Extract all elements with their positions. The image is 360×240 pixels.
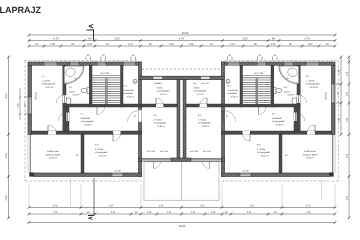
room label bathroom right [284,86,295,97]
svg-text:10,24 m²: 10,24 m² [45,86,54,89]
svg-text:3. Szoba: 3. Szoba [154,118,163,121]
svg-text:.90: .90 [105,43,109,46]
svg-text:2.04: 2.04 [167,211,172,214]
door hall to bedroom2 (right) [242,131,250,141]
svg-text:1.50: 1.50 [308,43,313,46]
svg-text:um 90: um 90 [114,170,121,173]
room label bedroom2 left [95,144,109,158]
svg-text:4.25: 4.25 [271,43,276,46]
svg-text:4,30 m²: 4,30 m² [73,94,80,97]
svg-text:szönyegpadló: szönyegpadló [257,151,271,154]
svg-text:3.04: 3.04 [111,211,116,214]
svg-text:.90: .90 [253,43,257,46]
svg-text:Gépkocsi beálló: Gépkocsi beálló [303,153,319,156]
svg-text:4.47: 4.47 [250,205,255,208]
window hall top (right) [228,62,240,65]
svg-text:Szoba: Szoba [157,86,164,89]
bottom wall center left corner [139,158,142,162]
carport side dim text left [76,154,289,157]
room label upper center left [157,82,171,96]
top wall left wing [28,62,141,65]
window dim marks outside right wall [336,84,340,103]
party wall right leaf [183,80,186,159]
svg-text:szönyegpadló: szönyegpadló [306,83,320,86]
carport corner post left [29,172,33,176]
recess right jamb wall [222,62,225,76]
svg-text:um 7.96: um 7.96 [100,72,109,75]
terrace outline below center [144,162,219,200]
wall stair/hall (right unit) [240,65,243,107]
right exterior wall [332,65,336,134]
room label bedroom1 right [306,75,320,89]
svg-text:szönyegpadló: szönyegpadló [157,90,171,93]
interior wall y104 (left unit) [63,104,141,107]
svg-text:4.79: 4.79 [304,38,310,41]
svg-text:14,61 m²: 14,61 m² [99,154,108,157]
svg-text:Közlekedö: Közlekedö [272,117,283,120]
toilet right unit [274,88,282,94]
carport corner post right [330,172,334,176]
interior wall y104 (right unit) [223,104,301,107]
room label bathroom left [69,86,80,97]
svg-text:szönyegpadló: szönyegpadló [81,120,95,123]
svg-text:.90: .90 [35,43,39,46]
svg-text:3,04 m²: 3,04 m² [231,95,238,98]
svg-text:4,30 m²: 4,30 m² [288,94,295,97]
dashed overhang line across recess [142,68,222,70]
svg-text:szönyegpadló: szönyegpadló [272,120,286,123]
svg-text:Szoba: Szoba [194,86,201,89]
svg-text:Vendszoba: Vendszoba [124,89,135,92]
svg-text:ALAPRAJZ: ALAPRAJZ [0,5,42,15]
svg-text:2. Szoba: 2. Szoba [95,148,104,151]
wall bathroom/stair (right unit) [271,65,274,107]
door center room upper (left) [156,98,164,107]
svg-text:.90/2.25: .90/2.25 [35,91,38,100]
interior dim chain above terrace doors [147,150,212,153]
door in wall y131 near x50 (right) [307,125,315,134]
svg-text:szönyegpadló: szönyegpadló [95,151,109,154]
stair label right [254,72,263,75]
svg-text:közlekedö: közlekedö [228,92,238,95]
svg-text:um 90: um 90 [242,170,249,173]
svg-text:C: C [227,80,229,83]
interior dim window bedroom2 left [114,170,249,173]
door dim text center-left wall [134,114,137,118]
svg-text:2.34: 2.34 [5,153,8,159]
wall hall/bedroom1 lower (right unit) [294,107,297,131]
corner bathtub left unit [64,66,84,84]
door dim text center-right wall [226,114,229,118]
svg-text:4.04: 4.04 [5,93,8,99]
wall hall/bedroom1 lower (left unit) [66,107,69,131]
room label upper center right [194,82,208,96]
toilet left unit [81,88,89,94]
terrace door swing left unit [154,162,161,169]
window bedroom1 top (right) [306,62,319,65]
section mark A (top) [87,24,94,40]
svg-text:10,35 m²: 10,35 m² [276,123,285,126]
svg-text:1. Szoba: 1. Szoba [306,79,315,82]
svg-text:.90/2.25: .90/2.25 [325,91,328,100]
svg-text:3. Szoba: 3. Szoba [198,118,207,121]
svg-text:um 7.96: um 7.96 [254,72,263,75]
wall bathroom/stair (left unit) [89,65,92,107]
interior wall below upper center room (right unit) [186,104,222,107]
svg-text:Gépkocsi beálló: Gépkocsi beálló [46,153,62,156]
room label hall lower left [81,113,95,127]
bottom dimension chain total [28,221,337,224]
section mark A (bottom) with arrow [88,178,94,219]
svg-text:13,53 m²: 13,53 m² [49,157,58,160]
carport left wall (right unit) [279,134,282,173]
svg-text:C: C [134,80,136,83]
door in center-right dividing wall [139,110,236,121]
column marker circle left [133,79,137,83]
svg-text:.90: .90 [88,38,92,41]
terrace glass door left unit [142,158,172,162]
svg-text:Közlekedö: Közlekedö [81,117,92,120]
svg-text:um 1.50: um 1.50 [160,150,169,153]
svg-text:közlekedö: közlekedö [124,92,134,95]
svg-text:szönyegpadló: szönyegpadló [198,122,212,125]
svg-text:.90: .90 [71,43,75,46]
door hall to bedroom1 (left) [58,113,69,122]
dimension extension lines below building [29,178,335,206]
door stair hall to lower hall (right) [259,107,267,115]
window bedroom2 bottom (right) [240,173,251,177]
bottom wall center right corner [222,158,225,162]
svg-text:.90: .90 [271,38,275,41]
interior wall above carport (right unit) [222,131,332,134]
window bathroom top (right) [284,62,293,65]
door center room upper (right) [200,98,208,107]
column marker circle right [226,79,230,83]
corner bathtub right unit [279,66,299,84]
rotated dim text at right wall window [325,91,328,100]
room label bedroom2 right [257,144,271,158]
svg-text:1.38: 1.38 [169,43,174,46]
window hall top (left) [124,62,136,65]
svg-text:2. Szoba: 2. Szoba [257,148,266,151]
svg-text:4.70: 4.70 [179,38,185,41]
carport open edge right [333,134,335,173]
washbasin left unit [66,98,71,104]
recess front wall (entry side) [139,76,225,79]
svg-text:1.30: 1.30 [159,205,164,208]
wall bedroom1/bathroom (right unit) [297,65,300,131]
svg-text:.90: .90 [325,43,329,46]
svg-text:1.20: 1.20 [128,43,133,46]
svg-text:Fedett terasz: Fedett terasz [304,150,316,153]
svg-text:1. Szoba: 1. Szoba [42,79,51,82]
center-right dividing wall (hall/center rooms) [222,80,225,162]
window stair top (right) [257,62,266,65]
door in wall y131 near x50 (left) [48,125,56,134]
room label hall right [228,85,239,99]
recess left jamb wall [139,62,142,76]
bottom wall left wing [34,173,142,177]
svg-text:4.25: 4.25 [87,43,92,46]
bottom dimension chain row 2 [28,211,337,215]
room label carport right [303,150,319,159]
interior wall above carport (left unit) [32,131,142,134]
rotated dim text at left wall window [35,91,38,100]
terrace glass door right unit [191,158,222,162]
svg-text:10,24 m²: 10,24 m² [310,86,319,89]
center-left dividing wall (hall/center rooms) [139,80,142,162]
svg-text:12,06 m²: 12,06 m² [157,125,166,128]
door bedroom1-bath wall (right) [297,95,307,103]
svg-text:1.50: 1.50 [50,43,55,46]
window extent marks above top wall [86,54,277,60]
window left wall bedroom1 [28,97,32,114]
svg-text:.90: .90 [288,43,292,46]
stair label left [100,72,109,75]
terrace door swing right unit [203,162,210,169]
room label hall lower right [272,113,286,127]
svg-text:5,21 m²: 5,21 m² [197,93,204,96]
wall stair/hall (left unit) [121,65,124,107]
svg-text:3,04 m²: 3,04 m² [127,95,134,98]
svg-text:Fürdö: Fürdö [284,90,290,93]
window dim marks outside left wall [24,97,28,114]
svg-text:2.56: 2.56 [242,38,248,41]
entry door left unit in recess wall [153,76,163,85]
bottom wall center pier at party wall [171,158,191,162]
room label hall left [124,85,135,99]
bottom wall right wing [222,173,330,177]
svg-text:.90: .90 [148,43,152,46]
svg-text:Fürdö: Fürdö [69,90,75,93]
staircase right unit [243,76,272,105]
room label lower center right [198,114,212,128]
window bathroom top (left) [70,62,79,65]
top dimension chain total 18.40 [28,32,337,36]
svg-text:4.79: 4.79 [53,38,59,41]
svg-text:.90: .90 [209,43,213,46]
left exterior wall [28,65,32,134]
step wall right (terrace side) [222,162,225,177]
svg-text:um 2.98: um 2.98 [147,150,156,153]
svg-text:um 1.50: um 1.50 [203,150,212,153]
top wall right wing [222,62,336,65]
svg-text:1.38: 1.38 [189,43,194,46]
top dimension chain row 3 [28,43,337,47]
svg-text:2.56: 2.56 [114,38,120,41]
roof eaves dashed outline [25,61,339,181]
svg-text:Fedett terasz: Fedett terasz [47,150,59,153]
svg-text:1.75: 1.75 [53,211,58,214]
svg-text:Vendszoba: Vendszoba [228,89,239,92]
title ALAPRAJZ (cut off at left edge) [0,5,42,15]
top dimension chain row 2 [28,38,337,42]
svg-text:18.40: 18.40 [179,225,186,228]
svg-text:3.04: 3.04 [247,211,252,214]
svg-text:um 2.98: um 2.98 [190,150,199,153]
door hall to bedroom1 (right) [294,113,305,122]
svg-text:2.30: 2.30 [5,195,8,201]
svg-text:1.75: 1.75 [306,211,311,214]
svg-text:1.20: 1.20 [230,43,235,46]
interior wall below upper center room (left unit) [142,104,178,107]
left dimension column [5,56,21,220]
door hall to bedroom2 (left) [113,131,121,141]
svg-text:szönyegpadló: szönyegpadló [194,90,208,93]
svg-text:5,21 m²: 5,21 m² [160,93,167,96]
window bedroom1 top (left) [44,62,57,65]
svg-text:10,35 m²: 10,35 m² [84,123,93,126]
svg-text:2.04: 2.04 [191,211,196,214]
svg-text:14,61 m²: 14,61 m² [261,154,270,157]
window bedroom2 bottom (left) [112,173,123,177]
room label lower center left [154,114,168,128]
svg-text:4.79: 4.79 [53,205,58,208]
svg-text:12,06 m²: 12,06 m² [202,125,211,128]
svg-text:1.36: 1.36 [147,211,152,214]
svg-text:13,53 m²: 13,53 m² [306,157,315,160]
svg-text:4.79: 4.79 [306,205,311,208]
carport open edge left [28,134,30,173]
wall bedroom1/bathroom (left unit) [63,65,66,131]
svg-text:4.47: 4.47 [109,205,114,208]
room label bedroom1 left [42,75,56,89]
svg-text:18.40: 18.40 [182,32,189,35]
right dimension column [337,56,350,220]
svg-text:1.30: 1.30 [200,205,205,208]
svg-text:szönyegpadló: szönyegpadló [154,122,168,125]
room label carport left [46,150,62,159]
washbasin right unit [292,98,297,104]
door bedroom1-bath wall (left) [56,95,66,103]
carport right wall (left unit) [81,134,84,173]
party wall left leaf [177,80,180,159]
entry door right unit in recess wall [201,76,211,85]
window stair top (left) [97,62,106,65]
door stair hall to lower hall (left) [97,107,105,115]
svg-text:um 1.10: um 1.10 [201,82,209,85]
staircase left unit [92,76,121,105]
svg-text:1.36: 1.36 [211,211,216,214]
door in center-left dividing wall [128,110,142,121]
window right wall bedroom1 [332,84,336,103]
svg-text:szönyegpadló: szönyegpadló [42,83,56,86]
bottom dimension chain row 1 [28,205,337,209]
step wall left (terrace side) [139,162,142,177]
